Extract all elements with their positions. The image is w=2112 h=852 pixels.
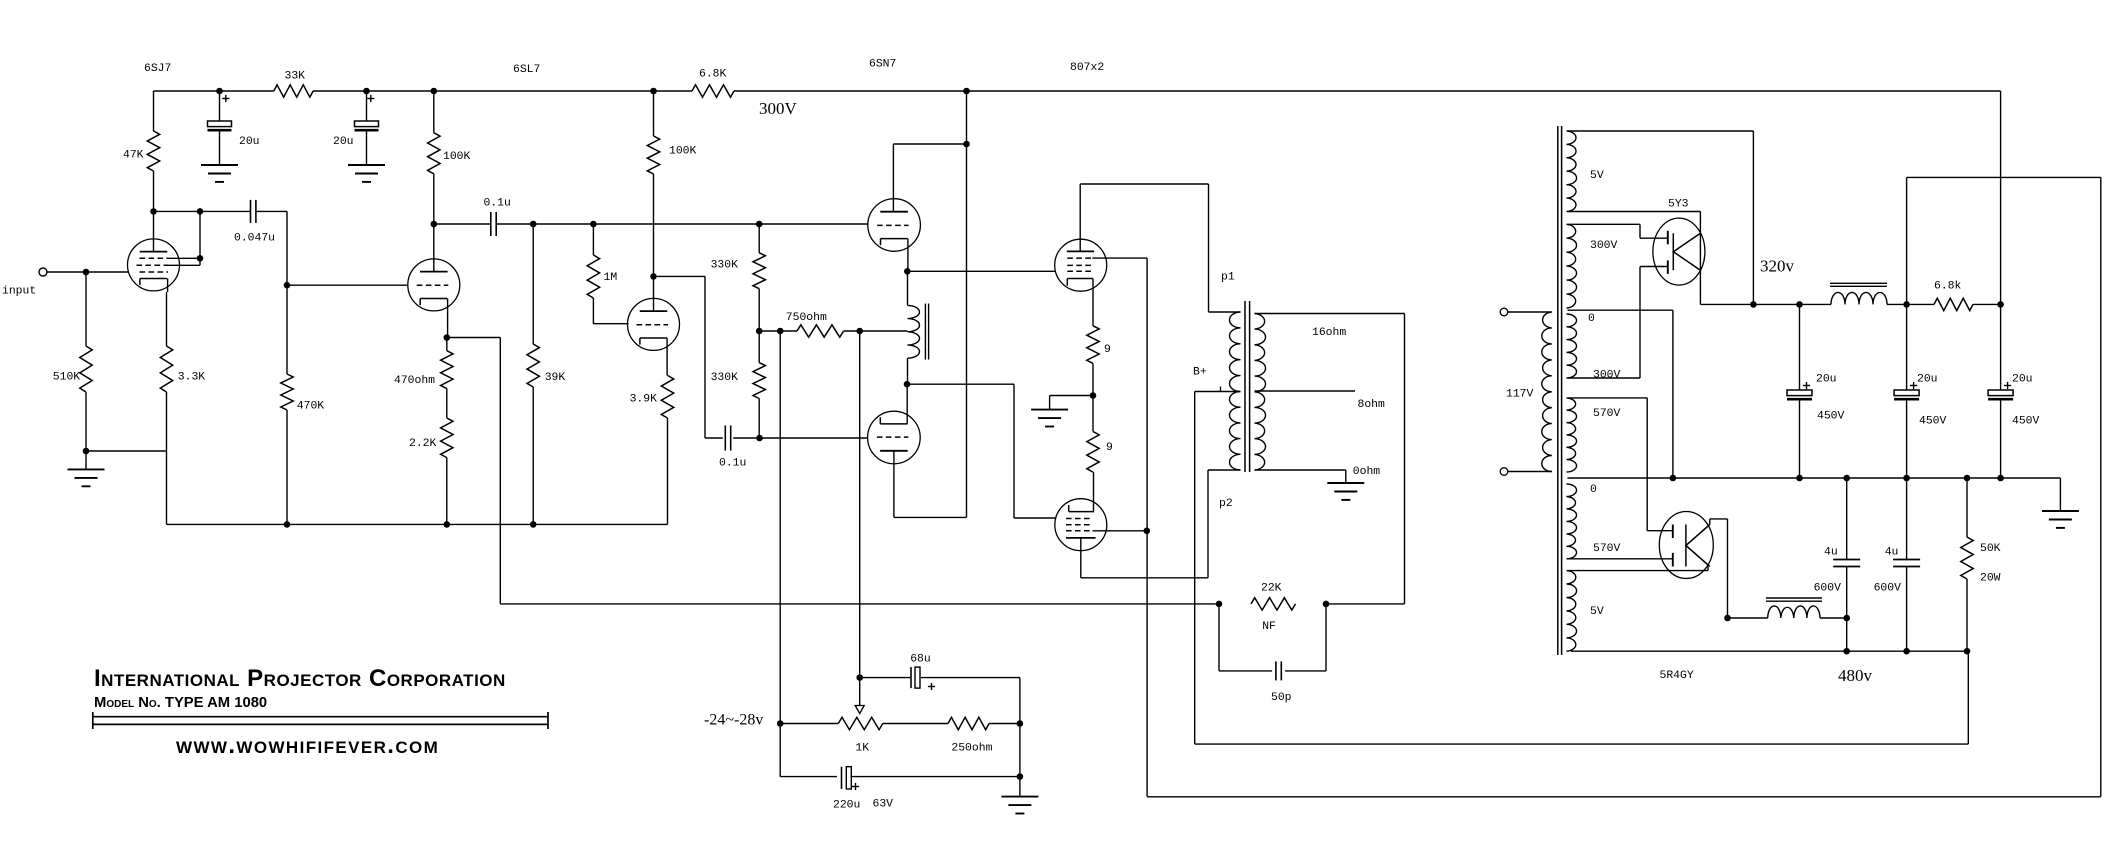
wire NF feedback line xyxy=(500,338,1219,604)
node input-ground junction xyxy=(83,448,167,455)
svg-text:16ohm: 16ohm xyxy=(1312,327,1346,339)
transformer power secondary 5V bottom xyxy=(1567,571,1604,652)
transformer power secondary 300V-1 xyxy=(1567,224,1618,308)
resistor 100K (6SL7-2 plate) xyxy=(647,91,696,276)
wire 480v rail xyxy=(1571,648,1970,685)
wire 300V-2 to plate xyxy=(1568,267,1668,379)
svg-text:330K: 330K xyxy=(711,372,739,384)
svg-text:20u: 20u xyxy=(333,136,354,148)
svg-text:6SJ7: 6SJ7 xyxy=(144,63,171,75)
wire 0ohm tap xyxy=(1255,466,1381,478)
capacitor 20u 450V (b) xyxy=(1894,304,1946,477)
resistor 250ohm xyxy=(948,717,1023,754)
svg-text:p2: p2 xyxy=(1219,498,1233,510)
svg-text:input: input xyxy=(2,286,36,298)
transformer power secondary 300V-2 xyxy=(1567,313,1621,382)
svg-text:100K: 100K xyxy=(443,151,471,163)
resistor 9 (lower) xyxy=(1087,396,1113,512)
wire 807 lower plate to p2 xyxy=(1081,470,1241,578)
svg-text:5V: 5V xyxy=(1590,606,1604,618)
tube 6SN7 lower triode xyxy=(868,411,921,464)
ground (807 cathodes) xyxy=(1031,396,1068,427)
wire B+ center tap drop xyxy=(1195,392,1969,745)
node bias rail left xyxy=(777,720,838,727)
node 330K midpoint xyxy=(756,328,797,335)
resistor 39K xyxy=(527,224,565,524)
svg-text:1K: 1K xyxy=(855,743,869,755)
capacitor 4u (b) xyxy=(1874,478,1921,651)
svg-text:47K: 47K xyxy=(123,150,144,162)
transformer power primary xyxy=(1506,312,1552,472)
node bias ground junction xyxy=(1017,724,1024,780)
svg-text:0.047u: 0.047u xyxy=(234,233,275,245)
label -24~-28v xyxy=(704,712,763,729)
svg-text:807x2: 807x2 xyxy=(1070,62,1104,74)
node 300V label xyxy=(759,99,798,118)
tube 807 upper xyxy=(1055,62,1107,291)
svg-text:0: 0 xyxy=(1590,484,1597,496)
wire 320v rail segment xyxy=(1700,301,2003,308)
svg-text:5V: 5V xyxy=(1590,170,1604,182)
wire 6SL7-1 cathode xyxy=(444,299,501,341)
transformer power secondary 570V-2 xyxy=(1567,484,1621,559)
transformer output secondary xyxy=(1255,314,1266,471)
svg-text:0: 0 xyxy=(1588,313,1595,325)
svg-text:750ohm: 750ohm xyxy=(786,312,827,324)
transformer output primary xyxy=(1193,272,1241,511)
resistor 750ohm xyxy=(786,312,908,337)
resistor 6.8K xyxy=(692,69,734,98)
resistor 33K xyxy=(274,71,313,98)
capacitor 220u xyxy=(780,724,1020,812)
svg-text:320v: 320v xyxy=(1760,257,1795,276)
svg-text:6.8K: 6.8K xyxy=(699,69,727,81)
svg-text:Model No. TYPE AM 1080: Model No. TYPE AM 1080 xyxy=(94,695,267,711)
wire 0.047u to grid xyxy=(284,211,408,374)
wire left ground bus xyxy=(167,451,668,528)
svg-text:600V: 600V xyxy=(1814,583,1842,595)
wire 807 lower screen xyxy=(1092,530,1146,532)
ground (0ohm) xyxy=(1327,470,1364,500)
capacitor 0.1u (first) xyxy=(484,198,511,237)
resistor 470ohm xyxy=(394,338,453,389)
svg-text:3.3K: 3.3K xyxy=(178,372,206,384)
resistor 47K xyxy=(123,91,160,211)
svg-text:0.1u: 0.1u xyxy=(719,458,746,470)
svg-text:300V: 300V xyxy=(1590,240,1618,252)
title website xyxy=(176,732,439,759)
svg-text:3.9K: 3.9K xyxy=(630,394,658,406)
svg-text:5Y3: 5Y3 xyxy=(1668,199,1689,211)
inductor filter choke xyxy=(1830,283,1887,304)
svg-text:6SN7: 6SN7 xyxy=(869,59,896,71)
wire 224 line xyxy=(431,221,868,228)
capacitor 50p xyxy=(1219,604,1326,704)
wire top B+ rail xyxy=(154,91,2001,304)
wire 6SJ7 cathode lead xyxy=(167,279,168,347)
wire 16ohm tap xyxy=(1255,314,1405,340)
svg-text:9: 9 xyxy=(1104,344,1111,356)
resistor 50K 20W xyxy=(1961,478,2001,651)
svg-text:p1: p1 xyxy=(1221,272,1235,284)
svg-text:4u: 4u xyxy=(1885,547,1899,559)
wire 300V-1 to plate xyxy=(1568,224,1668,238)
tube 6SJ7 xyxy=(128,63,180,291)
wire 8ohm tap xyxy=(1255,391,1386,411)
wire coil to 6SN7 lower cathode xyxy=(906,384,908,424)
svg-text:20u: 20u xyxy=(239,136,260,148)
capacitor 20u 450V (a) xyxy=(1787,304,1845,477)
capacitor 0.1u (second) xyxy=(719,426,746,470)
resistor 100K (6SL7-1 plate) xyxy=(428,91,471,224)
wire 6SN7 upper cathode xyxy=(904,239,911,275)
ground (under second 20u) xyxy=(348,165,385,182)
svg-text:220u: 220u xyxy=(833,800,860,812)
potentiometer 1K xyxy=(838,678,883,755)
svg-text:510K: 510K xyxy=(53,372,81,384)
wire 16ohm to NF xyxy=(1216,314,1405,608)
svg-text:20u: 20u xyxy=(1816,374,1837,386)
tube 5Y3 xyxy=(1653,199,1705,286)
tube 6SL7 second triode xyxy=(628,273,680,350)
wire input grid lead xyxy=(47,269,129,276)
wire 0 tap upper xyxy=(1568,310,1673,478)
svg-text:9: 9 xyxy=(1106,442,1113,454)
wire screen bus xyxy=(1144,258,1151,797)
wire 6SN7 lower plate xyxy=(894,451,967,518)
ground (input stage) xyxy=(68,451,105,486)
capacitor 68u xyxy=(860,654,1020,724)
svg-text:50K: 50K xyxy=(1980,543,2001,555)
svg-text:68u: 68u xyxy=(910,654,931,666)
svg-text:8ohm: 8ohm xyxy=(1358,399,1386,411)
tube 5R4GY xyxy=(1659,512,1713,683)
wire 6SL7-2 cathode xyxy=(666,338,668,375)
svg-text:330K: 330K xyxy=(711,260,739,272)
svg-text:www.wowhififever.com: www.wowhififever.com xyxy=(176,732,439,759)
resistor 510K xyxy=(53,272,92,451)
wire 1M to 6SL7-2 grid xyxy=(593,298,628,324)
wire 6SN7 upper plate xyxy=(893,141,969,212)
svg-text:117V: 117V xyxy=(1506,389,1534,401)
svg-text:450V: 450V xyxy=(2012,416,2040,428)
tube 6SN7 upper triode xyxy=(868,59,921,252)
resistor 6.8k (bleed) xyxy=(1934,281,1973,311)
transformer output core xyxy=(1245,301,1250,472)
wire bias wiper drop xyxy=(856,331,863,681)
svg-text:22K: 22K xyxy=(1261,583,1282,595)
wire 5V-2 to filament xyxy=(1568,567,1709,571)
terminal 117V lower xyxy=(1500,468,1508,476)
svg-text:470ohm: 470ohm xyxy=(394,375,435,387)
capacitor 20u (first filter) xyxy=(208,91,260,165)
capacitor 4u (a) xyxy=(1814,478,1861,651)
svg-text:300V: 300V xyxy=(759,99,798,118)
wire 6SJ7 screen tie xyxy=(165,211,203,265)
svg-text:B+: B+ xyxy=(1193,367,1207,379)
resistor 9 (upper) xyxy=(1087,279,1111,396)
transformer power secondary 5V top xyxy=(1567,131,1604,212)
inductor interstage coil xyxy=(908,271,929,384)
svg-text:20u: 20u xyxy=(2012,374,2033,386)
resistor 3.9K xyxy=(630,375,674,524)
node cathode ground junction xyxy=(1050,392,1097,399)
svg-text:6SL7: 6SL7 xyxy=(513,64,540,76)
title company xyxy=(94,665,506,692)
resistor 330K (lower) xyxy=(711,331,766,438)
wire 0.1u to 6SN7 lower grid xyxy=(733,435,868,442)
svg-text:20W: 20W xyxy=(1980,573,2001,585)
svg-text:100K: 100K xyxy=(669,146,697,158)
svg-text:600V: 600V xyxy=(1874,583,1902,595)
wire 6SJ7 plate lead xyxy=(153,211,155,239)
svg-text:470K: 470K xyxy=(297,401,325,413)
wire 5R4GY filament top xyxy=(1710,519,1731,621)
wire 807 upper screen xyxy=(1092,257,1147,259)
tube 807 lower xyxy=(1055,499,1107,551)
wire pot to 250ohm xyxy=(883,723,948,725)
resistor 22K NF xyxy=(1251,583,1296,634)
capacitor 20u (second filter) xyxy=(333,91,379,165)
wire to 807 upper grid xyxy=(907,270,1055,272)
svg-text:2.2K: 2.2K xyxy=(409,438,437,450)
resistor 330K (upper) xyxy=(711,224,766,331)
node coil bottom junction xyxy=(904,381,1056,518)
tube 6SL7 first triode xyxy=(408,64,541,311)
svg-text:4u: 4u xyxy=(1824,547,1838,559)
capacitor 0.047u xyxy=(234,200,275,245)
svg-text:0ohm: 0ohm xyxy=(1353,466,1381,478)
svg-text:63V: 63V xyxy=(873,799,894,811)
svg-text:50p: 50p xyxy=(1271,692,1292,704)
resistor 1M xyxy=(587,224,617,298)
svg-text:39K: 39K xyxy=(545,372,566,384)
svg-text:480v: 480v xyxy=(1838,666,1873,685)
title rule xyxy=(93,712,548,729)
svg-text:33K: 33K xyxy=(285,71,306,83)
svg-text:0.1u: 0.1u xyxy=(484,198,511,210)
svg-text:300V: 300V xyxy=(1593,370,1621,382)
title model xyxy=(94,695,267,711)
svg-text:1M: 1M xyxy=(604,272,618,284)
terminal input xyxy=(2,268,47,298)
wire 5V top to 320v xyxy=(1568,131,1754,304)
wire B+ drop to 6SN7 xyxy=(966,91,968,517)
inductor choke 2 xyxy=(1728,598,1850,621)
ground (under first 20u) xyxy=(201,165,238,182)
wire 570V-2 to plate xyxy=(1568,558,1673,560)
svg-text:570V: 570V xyxy=(1593,408,1621,420)
wire bias left drop xyxy=(779,331,781,724)
wire 807 upper plate to p1 xyxy=(1080,184,1208,312)
svg-text:5R4GY: 5R4GY xyxy=(1660,670,1694,682)
transformer power secondary 570V-1 xyxy=(1567,398,1621,472)
svg-text:570V: 570V xyxy=(1593,543,1621,555)
resistor 470K xyxy=(281,374,325,524)
ground (B- rail) xyxy=(2042,478,2079,528)
terminal 117V upper xyxy=(1500,308,1508,316)
junction dots top rail xyxy=(216,88,970,95)
transformer power core xyxy=(1558,126,1562,655)
resistor 3.3K xyxy=(160,346,205,451)
svg-text:6.8k: 6.8k xyxy=(1934,281,1962,293)
wire screen return box xyxy=(1147,177,2101,796)
svg-text:-24~-28v: -24~-28v xyxy=(704,712,763,729)
wire B- rail xyxy=(1568,475,2061,482)
label 320v xyxy=(1760,257,1795,276)
svg-text:450V: 450V xyxy=(1817,411,1845,423)
wire 5V bottom to 5Y3 xyxy=(1568,212,1701,305)
svg-text:20u: 20u xyxy=(1917,374,1938,386)
capacitor 20u 450V (c) xyxy=(1988,304,2039,477)
resistor 2.2K xyxy=(409,389,453,525)
svg-text:450V: 450V xyxy=(1919,416,1947,428)
wire 570V-1 to plate xyxy=(1568,398,1673,531)
wire 0.047u line xyxy=(150,208,287,215)
svg-text:NF: NF xyxy=(1262,621,1276,633)
wire 6SL7-2 plate to 0.1u xyxy=(654,276,723,438)
svg-text:International Projector Corpor: International Projector Corporation xyxy=(94,665,506,692)
ground (bias network) xyxy=(1001,777,1038,814)
svg-text:250ohm: 250ohm xyxy=(951,743,992,755)
